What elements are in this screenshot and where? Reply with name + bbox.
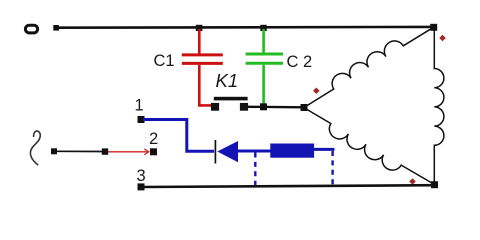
- node junction C2 on top rail: [260, 25, 266, 31]
- wire contact to motor left vertex: [248, 106, 305, 109]
- wire AC to mid square: [56, 150, 102, 152]
- svg-text:3: 3: [137, 167, 146, 185]
- red dot near left vertex: [313, 88, 320, 95]
- dashed wire right (blue): [331, 151, 333, 187]
- wire resistor right lead (blue): [314, 148, 335, 151]
- wire top rail: [56, 26, 434, 29]
- diode cathode bar: [214, 140, 216, 164]
- dashed wire left (blue): [254, 153, 256, 187]
- node junction C2 bottom: [260, 103, 267, 110]
- capacitor C2: [246, 54, 283, 63]
- svg-text:C 2: C 2: [287, 53, 313, 71]
- red dot near top-right vertex: [439, 35, 446, 42]
- mid square: [102, 148, 108, 154]
- contact K1 right terminal: [240, 103, 248, 111]
- motor bottom-right vertex node: [431, 181, 438, 188]
- diode D1 (points left): [217, 141, 238, 162]
- wire C2 top lead (green): [262, 29, 265, 54]
- terminal 3 square: [138, 183, 145, 190]
- contact K1 bar: [214, 97, 248, 101]
- red arrow wire to terminal 2: [108, 149, 149, 155]
- terminal square node 0: [53, 25, 59, 31]
- AC source tilde: [30, 131, 40, 165]
- capacitor C1: [182, 55, 223, 64]
- terminal 2 square: [150, 148, 157, 155]
- svg-text:K1: K1: [216, 70, 239, 91]
- wire C1 top lead (red): [198, 29, 201, 54]
- wire bottom rail: [143, 185, 435, 187]
- motor top-right vertex node: [430, 24, 437, 31]
- node 0 label: [25, 25, 37, 33]
- svg-text:C1: C1: [154, 52, 175, 70]
- winding bottom (left vertex to bottom-right vertex): [305, 108, 435, 185]
- AC terminal square left: [51, 148, 57, 154]
- winding top (left vertex to top-right vertex): [304, 27, 434, 107]
- svg-text:1: 1: [135, 97, 144, 115]
- winding right (top-right vertex to bottom-right vertex): [434, 27, 444, 184]
- terminal 1 square: [138, 116, 145, 123]
- motor left vertex node: [301, 104, 308, 111]
- contact K1 left terminal: [211, 103, 219, 111]
- wire diode to resistor (blue): [238, 150, 271, 153]
- svg-text:2: 2: [149, 130, 158, 148]
- wire C2 bottom lead (green): [262, 65, 265, 106]
- resistor R1: [270, 144, 314, 158]
- wire terminal 1 to diode (blue): [143, 120, 214, 152]
- wire C1 bottom lead to contact (red): [199, 65, 212, 105]
- node junction C1 on top rail: [196, 25, 203, 31]
- red dot near bottom-right vertex: [409, 178, 416, 185]
